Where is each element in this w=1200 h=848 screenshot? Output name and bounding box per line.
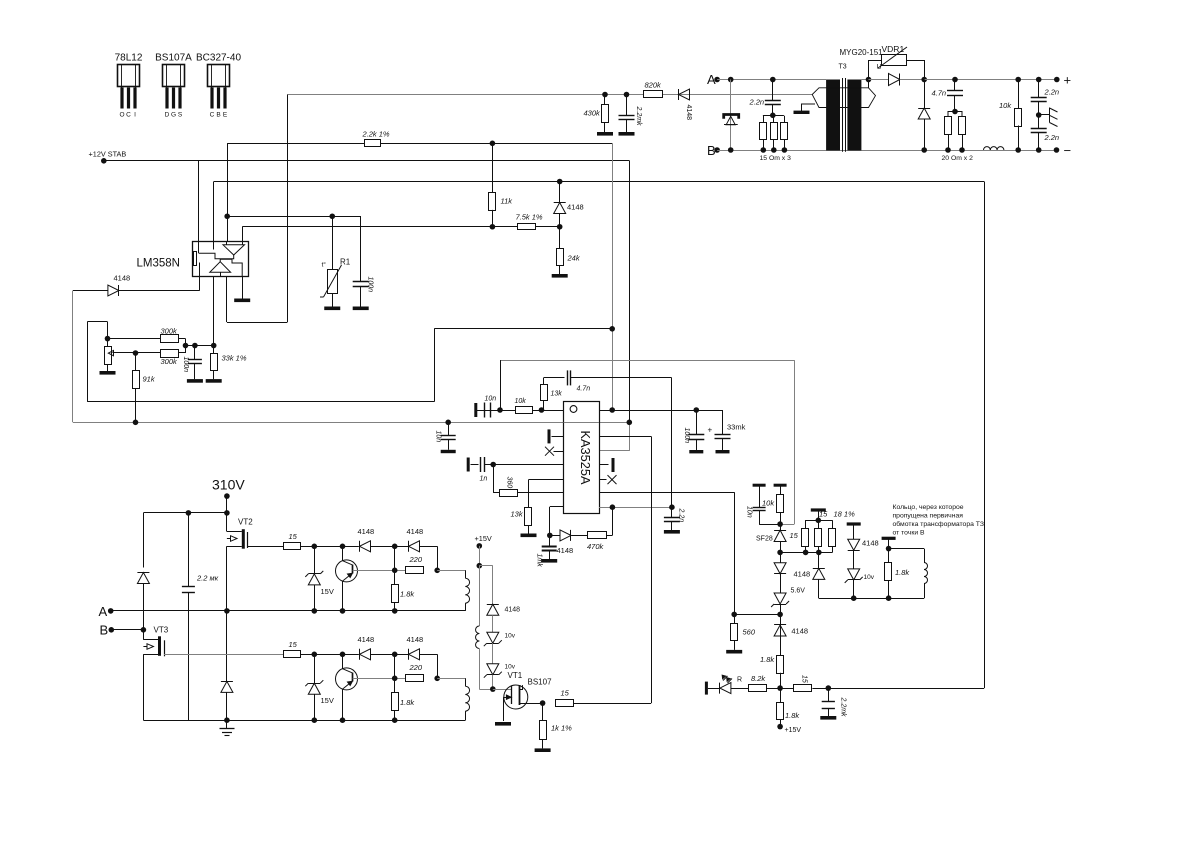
svg-text:2.2mk: 2.2mk [840, 697, 847, 718]
node A term [108, 608, 114, 614]
svg-text:SF28: SF28 [756, 536, 773, 543]
svg-text:VT3: VT3 [154, 626, 169, 635]
pin y=506 left stub to 1mk node [550, 506, 564, 508]
ground 10n gray [441, 450, 456, 453]
node VT1 source [540, 700, 546, 706]
node mid [392, 652, 398, 658]
svg-text:4148: 4148 [505, 607, 521, 614]
svg-text:1.8k: 1.8k [760, 655, 775, 664]
diode left column top [780, 552, 782, 562]
node right row x=695.8 [694, 407, 700, 413]
resistor 300k upper [161, 335, 179, 343]
wire to 560 [734, 614, 780, 616]
svg-text:I: I [134, 112, 136, 119]
wire 2.2k feedback net y=143 [227, 143, 612, 145]
svg-text:33k 1%: 33k 1% [222, 354, 247, 363]
zener 15V [314, 654, 316, 683]
svg-text:10k: 10k [762, 499, 775, 508]
wire x=213.3 LM358 pin [213, 182, 215, 242]
svg-text:820k: 820k [645, 81, 663, 90]
svg-text:−: − [1064, 143, 1072, 158]
wire 310V down [226, 496, 228, 531]
svg-text:обмотка трансформатора ТЗ: обмотка трансформатора ТЗ [893, 520, 984, 528]
ground 33k [206, 379, 222, 383]
node in+ junction [224, 213, 230, 219]
package pinout BC327-40 [196, 53, 241, 119]
nodes 20 Om bottoms [945, 147, 951, 153]
svg-text:2.2n: 2.2n [1044, 133, 1060, 142]
node 10k top [1015, 77, 1021, 83]
wire x=433.7 up [434, 329, 436, 402]
svg-text:5.6V: 5.6V [791, 588, 806, 595]
node 11k bottom [490, 224, 496, 230]
wire op-amp in+ y=215.75 [227, 216, 361, 218]
node 4148 bottom [557, 224, 563, 230]
diode 4148 lower chain [774, 625, 786, 636]
svg-text:1.8k: 1.8k [400, 590, 415, 599]
diode 4148 col853 [853, 524, 855, 539]
svg-text:220: 220 [409, 555, 423, 564]
transistor BC327 PNP driver [336, 654, 358, 720]
wire to ring winding [889, 548, 924, 550]
wire x=793.8 gray down [794, 360, 796, 524]
wire x=499.5 to KA3525 pin row [500, 360, 502, 410]
wire gate into VT1 [493, 689, 512, 691]
wire x=286.9 long vertical [287, 95, 289, 323]
resistor 13k lower [528, 493, 530, 507]
wire 4148 mid down [394, 546, 396, 570]
svg-text:33mk: 33mk [727, 423, 746, 432]
node base [340, 544, 346, 550]
node 1mk [547, 533, 553, 539]
wire A to transformer gray [717, 79, 826, 81]
ground 560 [726, 650, 742, 654]
capacitor 2.2mk bottom [828, 688, 830, 702]
svg-text:MYG20-151: MYG20-151 [840, 48, 884, 57]
zener 5.6V [774, 593, 786, 604]
chassis ground symbol [1039, 114, 1050, 116]
svg-text:R1: R1 [340, 258, 351, 267]
svg-text:20 Om x 2: 20 Om x 2 [942, 155, 974, 162]
wire KA3525 top pin row left [477, 410, 564, 412]
zener 15V [314, 546, 316, 574]
diode 4148 gate 1 [360, 649, 371, 660]
node B drive [141, 627, 147, 633]
node col888 bottom [886, 595, 892, 601]
capacitor 2.2n timing [671, 507, 673, 517]
ground LM358 pin [242, 277, 244, 299]
svg-text:+: + [708, 426, 713, 435]
svg-text:560: 560 [743, 628, 756, 637]
svg-text:18 1%: 18 1% [834, 510, 856, 519]
node A-VT2 [224, 608, 230, 614]
resistor 91k [135, 353, 137, 371]
wire y=321.5 to LM358 pin [226, 277, 228, 323]
svg-text:Кольцо, через которое: Кольцо, через которое [893, 504, 964, 511]
svg-text:O: O [119, 112, 124, 119]
node gray x=628.8 [627, 420, 633, 426]
svg-text:91k: 91k [143, 375, 156, 384]
node 310V rail [224, 510, 230, 516]
capacitor 2.2n snubber [772, 80, 774, 101]
IC U2 KA3525A [564, 402, 600, 514]
wire x=198.3 LM358 V+ pin [198, 161, 200, 242]
wire KA3525 pin gray L x=628.8 [629, 422, 631, 451]
capacitor 2.2n lower output [1038, 115, 1040, 129]
node 10k bottom [1015, 147, 1021, 153]
wire +12V STAB net [104, 160, 630, 162]
svg-text:4148: 4148 [791, 627, 808, 636]
node rect cathode [921, 77, 927, 83]
svg-text:t°: t° [322, 261, 327, 269]
node 11k top [490, 141, 496, 147]
transformer T3 secondary bar [847, 80, 861, 151]
winding VT1 primary [479, 566, 481, 626]
terminal bar col 853 [847, 522, 861, 525]
node B terminal [714, 147, 720, 153]
node 560 junction [777, 612, 783, 618]
svg-text:R: R [737, 677, 742, 684]
node secondary top [866, 77, 872, 83]
node 91k bottom [133, 420, 139, 426]
svg-text:15: 15 [801, 675, 808, 683]
node 4.7n top [952, 77, 958, 83]
node col888 [886, 546, 892, 552]
svg-text:15: 15 [819, 510, 828, 519]
node 10n gray top [445, 420, 451, 426]
node 15-zener [312, 544, 318, 550]
ground potentiometer [100, 371, 116, 375]
terminal bar col 888 [882, 537, 896, 540]
pin stub plate terminal right y=464.5 [599, 464, 609, 466]
wire LM358 out to 4148 y=290 [73, 290, 108, 292]
node 4148 top [557, 179, 563, 185]
resistor 10k output [1018, 80, 1020, 109]
svg-text:4148: 4148 [407, 527, 424, 536]
resistor 15 gate [284, 543, 301, 550]
svg-text:15 Om x 3: 15 Om x 3 [760, 155, 792, 162]
wire A rail [111, 610, 466, 612]
svg-text:2.2n: 2.2n [749, 98, 765, 107]
capacitor 10n pin row [474, 403, 477, 417]
svg-text:4148: 4148 [407, 635, 424, 644]
wire VT3 source down [143, 654, 145, 720]
svg-text:13k: 13k [511, 510, 524, 519]
svg-text:2.2n: 2.2n [678, 508, 685, 523]
resistors 15/18 shunt x3 [811, 508, 826, 511]
wire 310V rail left [143, 512, 227, 514]
capacitor 2.2n upper output [1038, 80, 1040, 98]
svg-text:360: 360 [506, 477, 513, 489]
svg-text:C: C [210, 112, 215, 119]
diode 4148 gate 2 [371, 654, 410, 656]
svg-text:BS107: BS107 [528, 678, 553, 687]
transistor BC327 PNP driver [336, 546, 358, 611]
resistor 13k upper [543, 401, 545, 410]
node LED row [777, 685, 783, 691]
node 1n [490, 462, 496, 468]
node 2.2n col mid [1036, 112, 1042, 118]
node 220 left [392, 676, 398, 682]
resistors 15 Om x 3 [763, 115, 784, 117]
zener 10v col853 [848, 569, 860, 580]
svg-text:4.7n: 4.7n [577, 386, 591, 393]
svg-text:2.2 мк: 2.2 мк [196, 574, 219, 583]
diode freewheel A [226, 611, 228, 682]
capacitor 4.7n output [954, 80, 956, 91]
wire col888 [888, 538, 890, 563]
node VT1 gate [490, 686, 496, 692]
node B term [109, 627, 115, 633]
wire secondary bar to node [861, 79, 868, 81]
svg-text:1.8k: 1.8k [400, 698, 415, 707]
resistor 220 [406, 567, 424, 574]
wire vt1 to KA out [574, 703, 652, 705]
svg-text:4148: 4148 [862, 539, 879, 548]
svg-text:470k: 470k [587, 542, 605, 551]
svg-text:4148: 4148 [114, 274, 131, 283]
svg-text:100n: 100n [683, 428, 690, 444]
diode 4148 startup [679, 89, 690, 100]
node R1 top [329, 213, 335, 219]
svg-text:10k: 10k [515, 398, 527, 405]
nodes shunt [803, 550, 809, 556]
svg-text:10v: 10v [505, 664, 516, 671]
inductor output choke [984, 147, 991, 150]
node diode A bottom [224, 717, 230, 723]
wire +15V down gray [479, 546, 481, 566]
wire x=226.7 LM358 pin to nets [227, 143, 229, 241]
LED diode [720, 683, 731, 694]
resistor 360 [493, 465, 495, 493]
node 310V terminal [224, 493, 230, 499]
wire bobbin top to A-line [868, 80, 870, 88]
node pot top [105, 336, 111, 342]
capacitor 2.2mk bridge [188, 513, 190, 586]
diode 4148 at LM358 output [108, 285, 119, 296]
svg-text:2.2k 1%: 2.2k 1% [362, 130, 390, 139]
capacitor 10n prot [753, 484, 766, 487]
diode SF28 [774, 530, 786, 541]
zener 10v #1 [487, 632, 499, 643]
svg-text:от точки В: от точки В [893, 530, 925, 537]
wire op-amp y=226.25 [242, 226, 518, 228]
svg-text:+15V: +15V [785, 727, 802, 734]
node - end [1054, 147, 1060, 153]
wire to winding [437, 678, 465, 680]
wire right pin row y=506.7 gray [599, 507, 672, 509]
wire emitter to 220 [353, 678, 406, 680]
svg-text:13k: 13k [551, 391, 563, 398]
node 15-zener [312, 652, 318, 658]
svg-text:7.5k 1%: 7.5k 1% [516, 213, 543, 222]
wire to winding [437, 570, 465, 572]
node A-zener [728, 77, 734, 83]
svg-text:BS107A: BS107A [155, 53, 192, 64]
LED terminal bar [705, 682, 708, 695]
transformer T3 core lines [842, 78, 844, 152]
node mid [392, 544, 398, 550]
svg-text:LM358N: LM358N [137, 258, 180, 270]
wire x=611.7 vertical gray [612, 143, 614, 410]
svg-text:4148: 4148 [685, 105, 692, 121]
svg-text:VT2: VT2 [238, 518, 253, 527]
ground 13k lower [521, 534, 537, 538]
svg-text:11k: 11k [501, 197, 514, 206]
transformer T3 primary bar [826, 80, 840, 151]
ring winding coil [924, 549, 926, 563]
ground 24k [552, 274, 568, 278]
resistor 220 [406, 675, 424, 682]
ground 100n R1 [353, 307, 369, 311]
node right row x=611.7 [609, 407, 615, 413]
diode clamp B-310V [137, 573, 149, 584]
svg-text:U: U [877, 64, 882, 71]
ground 2.2mk [619, 132, 635, 136]
capacitor 33mk electrolytic [722, 410, 724, 434]
wire 4148 mid down [394, 654, 396, 678]
wire y=328.3 to x=611.7 [434, 328, 612, 330]
wire 300k right joins [178, 338, 186, 340]
svg-text:10n: 10n [485, 396, 497, 403]
diode freewheel output [924, 80, 926, 109]
pin stub with plate terminal left y=436 [552, 436, 564, 438]
node 2.2mk top [186, 510, 192, 516]
resistor 11k [492, 143, 494, 192]
wire 4148-2 down [437, 654, 439, 678]
svg-text:10n: 10n [435, 431, 442, 443]
package pinout BS107A [155, 53, 192, 119]
svg-text:10v: 10v [505, 633, 516, 640]
capacitor 1mk soft start [549, 535, 551, 546]
node 100n top [192, 343, 198, 349]
node SF28 anode [777, 550, 783, 556]
transistor VT1 BS107 [503, 685, 542, 721]
node 430k top [602, 92, 608, 98]
svg-text:220: 220 [409, 663, 423, 672]
resistors 20 Om x 2 [948, 112, 962, 117]
node 220 left [392, 568, 398, 574]
svg-text:4148: 4148 [358, 635, 375, 644]
resistor 1.8k +15V [780, 688, 782, 703]
node 91k top [133, 350, 139, 356]
resistor 1.8k ring [885, 563, 892, 581]
wire x=72.5 left vertical gray [72, 291, 74, 423]
svg-text:24k: 24k [567, 254, 581, 263]
pin stub X right y=479 [599, 479, 607, 481]
diode 4148 vt1 chain [487, 604, 499, 615]
svg-text:+: + [1064, 73, 1072, 88]
svg-text:78L12: 78L12 [115, 53, 143, 64]
svg-text:300k: 300k [161, 357, 179, 366]
node +15V bottom [777, 724, 783, 730]
svg-text:1.8k: 1.8k [785, 711, 800, 720]
node A snubber [770, 77, 776, 83]
svg-text:+12V STAB: +12V STAB [89, 150, 127, 159]
node 220 right [434, 676, 440, 682]
svg-text:VDR1: VDR1 [882, 44, 905, 54]
wire B line gray [717, 150, 1056, 152]
wire x=241.75 LM358 pin [242, 227, 244, 242]
node 2.2n col top [1036, 77, 1042, 83]
node 300k out [183, 343, 189, 349]
transistor VT2 MOSFET [227, 518, 284, 549]
wire VT2 source down [226, 546, 228, 611]
node + end [1054, 77, 1060, 83]
node col853 bottom [851, 595, 857, 601]
svg-text:15: 15 [561, 689, 570, 698]
ground 2.2n timing [664, 530, 680, 534]
transformer T3 winding bobbin outline [812, 88, 875, 108]
wire right pin y=492 to 560 node [599, 492, 735, 494]
gray wire through IC y=422 (right part) [564, 422, 600, 424]
svg-text:15: 15 [790, 531, 799, 540]
svg-text:B: B [100, 623, 109, 638]
package pinout 78L12 [115, 53, 143, 119]
svg-text:4148: 4148 [794, 570, 811, 579]
gate transformer winding [465, 678, 467, 686]
capacitor 1n pin [467, 458, 470, 472]
svg-text:10k: 10k [999, 101, 1012, 110]
svg-text:S: S [178, 112, 183, 119]
wire op-amp out net y=181 [214, 181, 984, 183]
svg-text:310V: 310V [212, 477, 245, 493]
resistor 1.8k upper led [777, 656, 784, 674]
potentiometer [105, 347, 112, 365]
gate transformer winding [465, 570, 467, 578]
resistor 470k [588, 532, 607, 539]
resistor 560 [734, 614, 736, 623]
diode 4148 gate 1 [360, 541, 371, 552]
svg-text:15: 15 [289, 532, 298, 541]
svg-text:A: A [99, 604, 108, 619]
resistor 10k prot [774, 484, 787, 487]
wire 4.7n down x=671.2 [671, 378, 673, 507]
diode 4148 ov1 [818, 552, 820, 568]
wire to diode chain [479, 565, 493, 567]
resistor 15 vt1 [556, 700, 574, 707]
resistor 24k [559, 227, 561, 249]
node pin row x=499.5 [497, 407, 503, 413]
svg-text:VT1: VT1 [508, 671, 523, 680]
zener diode A-B thick [724, 115, 739, 119]
resistor 33k 1% [213, 277, 215, 354]
resistor 8.2k [749, 685, 767, 692]
svg-text:4148: 4148 [358, 527, 375, 536]
ground 430k [597, 132, 613, 136]
wire y=401.3 [87, 401, 434, 403]
node out x=611.9 [610, 504, 616, 510]
resistor 10k pin row [516, 407, 533, 414]
svg-text:1n: 1n [480, 476, 488, 483]
wire emitter to 220 [353, 570, 406, 572]
svg-text:100n: 100n [182, 357, 189, 373]
svg-text:2.2n: 2.2n [1044, 88, 1060, 97]
bottom rail [143, 720, 465, 722]
transformer T3 primary lower tail to terminal [802, 104, 816, 111]
resistor 2.2k 1% [365, 140, 381, 147]
wire B terminal [111, 629, 143, 631]
svg-text:15V: 15V [321, 696, 334, 705]
capacitor 4.7n feedback [544, 377, 565, 379]
node shunt top [816, 518, 822, 524]
capacitor 10n on gray feedback wire [448, 422, 450, 436]
svg-text:4148: 4148 [557, 546, 574, 555]
node snubber mid [770, 113, 776, 119]
wire gray feedback y=422 [73, 422, 629, 424]
node out x=671.4 [669, 504, 675, 510]
wire right feedback vertical x=983.6 [984, 182, 986, 689]
